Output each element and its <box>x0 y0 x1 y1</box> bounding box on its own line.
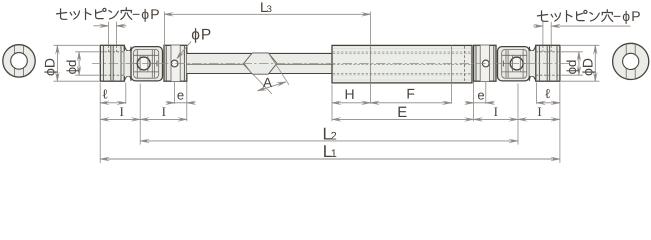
ext line H end <box>369 83 371 104</box>
ring left seam lines <box>14 46 16 76</box>
svg-text:ϕd: ϕd <box>64 60 79 75</box>
A dim arrows <box>258 82 286 91</box>
collar right grooves <box>475 45 477 81</box>
phiD left dimension line <box>56 45 58 81</box>
centerline <box>92 63 570 65</box>
ring left outer <box>3 45 35 77</box>
phid left extension lines <box>75 51 99 53</box>
phiD right dimension line <box>594 45 596 81</box>
yoke right bearing chords <box>512 56 514 72</box>
svg-text:I: I <box>494 104 498 119</box>
set pin left dimension <box>94 25 109 27</box>
tube hidden hex lines <box>333 52 471 54</box>
hex section symbol <box>244 53 277 74</box>
yoke left fork lines <box>136 49 138 78</box>
collar left mid band <box>171 45 180 81</box>
label set-pin-hole left <box>56 6 160 22</box>
yoke left inner outline <box>134 49 159 78</box>
neck right <box>529 45 535 81</box>
tube hidden end line <box>464 46 466 82</box>
svg-text:e: e <box>477 88 484 103</box>
collar left body <box>164 45 187 81</box>
tube bore hidden lines <box>333 51 471 53</box>
label set-pin-hole right <box>537 8 641 24</box>
collar left grooves <box>165 45 167 81</box>
svg-text:1: 1 <box>331 148 337 160</box>
ext line joint2 center <box>517 84 519 145</box>
hub right bore hidden lines <box>536 51 560 53</box>
phid right dimension line <box>578 52 580 75</box>
svg-text:ℓ: ℓ <box>544 86 550 101</box>
collar left pin hole phiP <box>171 60 178 67</box>
yoke right inner outline <box>502 49 527 78</box>
ext line ell2 left <box>536 83 538 104</box>
H dimension <box>332 102 370 104</box>
svg-text:ϕD: ϕD <box>580 58 596 76</box>
I dim 1 <box>100 118 140 120</box>
tube body <box>332 45 472 83</box>
ring right outer <box>613 43 649 79</box>
svg-text:3: 3 <box>267 4 272 15</box>
F dimension <box>370 102 451 104</box>
L1 dimension line <box>100 158 560 160</box>
svg-text:ℓ: ℓ <box>102 86 108 101</box>
svg-text:F: F <box>406 86 415 102</box>
ring right seam lines <box>625 44 627 79</box>
L3 extension lines <box>163 12 165 47</box>
hub right pin hole hidden lines <box>542 45 544 52</box>
svg-text:I: I <box>537 104 541 119</box>
hub right grooves <box>538 45 540 81</box>
tube H end line <box>369 45 371 83</box>
ext line collar1 end <box>186 82 188 121</box>
ext line ell1 right <box>125 83 127 104</box>
hub left grooves <box>102 45 104 81</box>
collar right body <box>474 45 496 81</box>
collar right mid band <box>480 45 489 81</box>
phid right extension lines <box>561 51 583 53</box>
hub left bore hidden lines <box>100 51 124 53</box>
yoke right outer <box>498 47 530 81</box>
yoke right fork lines <box>522 49 524 78</box>
phiD left extension lines <box>54 44 100 46</box>
phiP leader <box>178 42 191 58</box>
svg-text:ϕD: ϕD <box>41 58 57 76</box>
hub left pin hole hidden lines <box>107 45 109 52</box>
e right dimension <box>465 102 473 104</box>
svg-text:ϕP: ϕP <box>191 27 212 44</box>
hex shaft left fill <box>187 53 332 73</box>
ext line joint1 center <box>139 84 141 145</box>
ring right bore <box>623 53 639 69</box>
svg-text:A: A <box>263 75 272 90</box>
ring left bore <box>11 53 28 70</box>
svg-text:I: I <box>162 104 166 119</box>
ell right dimension <box>537 102 560 104</box>
ext line e1 left <box>174 82 176 104</box>
A dim extension lines <box>244 65 272 94</box>
I dim 3 <box>474 118 518 120</box>
set pin left extension lines <box>107 22 109 45</box>
hub right body <box>536 45 560 81</box>
phiD right extension lines <box>561 44 599 46</box>
canvas background <box>0 0 651 169</box>
I dim 4 <box>518 118 560 120</box>
set pin right dimension <box>533 25 543 27</box>
svg-text:E: E <box>397 104 407 121</box>
neck left <box>124 45 131 81</box>
svg-text:ϕd: ϕd <box>564 60 579 75</box>
ext line F end <box>450 83 452 104</box>
ext line tube left <box>331 84 333 121</box>
tube shading lines <box>333 47 471 49</box>
I dim 2 <box>140 118 187 120</box>
L2 dimension line <box>140 140 518 142</box>
svg-text:e: e <box>177 88 184 103</box>
ell left dimension <box>100 102 126 104</box>
L3 dimension line <box>164 13 370 15</box>
collar right pin hole phiP <box>482 60 489 67</box>
svg-text:−ϕP: −ϕP <box>613 8 642 24</box>
yoke left outer <box>131 47 163 81</box>
yoke left bearing circle <box>137 57 150 70</box>
yoke left bearing chords <box>139 56 141 72</box>
svg-text:H: H <box>344 86 354 102</box>
svg-text:−ϕP: −ϕP <box>132 6 161 22</box>
svg-text:2: 2 <box>331 130 337 142</box>
E dimension <box>332 118 474 120</box>
ext line e2 right <box>485 82 487 104</box>
e left dimension <box>166 102 174 104</box>
yoke right bearing circle <box>510 57 523 70</box>
hub left body <box>100 45 124 81</box>
svg-text:I: I <box>120 104 124 119</box>
phid left dimension line <box>78 52 80 75</box>
set pin right extension lines <box>542 22 544 45</box>
hex shaft left lines <box>187 52 332 54</box>
ext line hub2 right tall <box>559 83 561 164</box>
tube F end line <box>450 45 452 83</box>
ext line hub1 left tall <box>99 83 101 164</box>
ext line collar2 start <box>473 82 475 121</box>
